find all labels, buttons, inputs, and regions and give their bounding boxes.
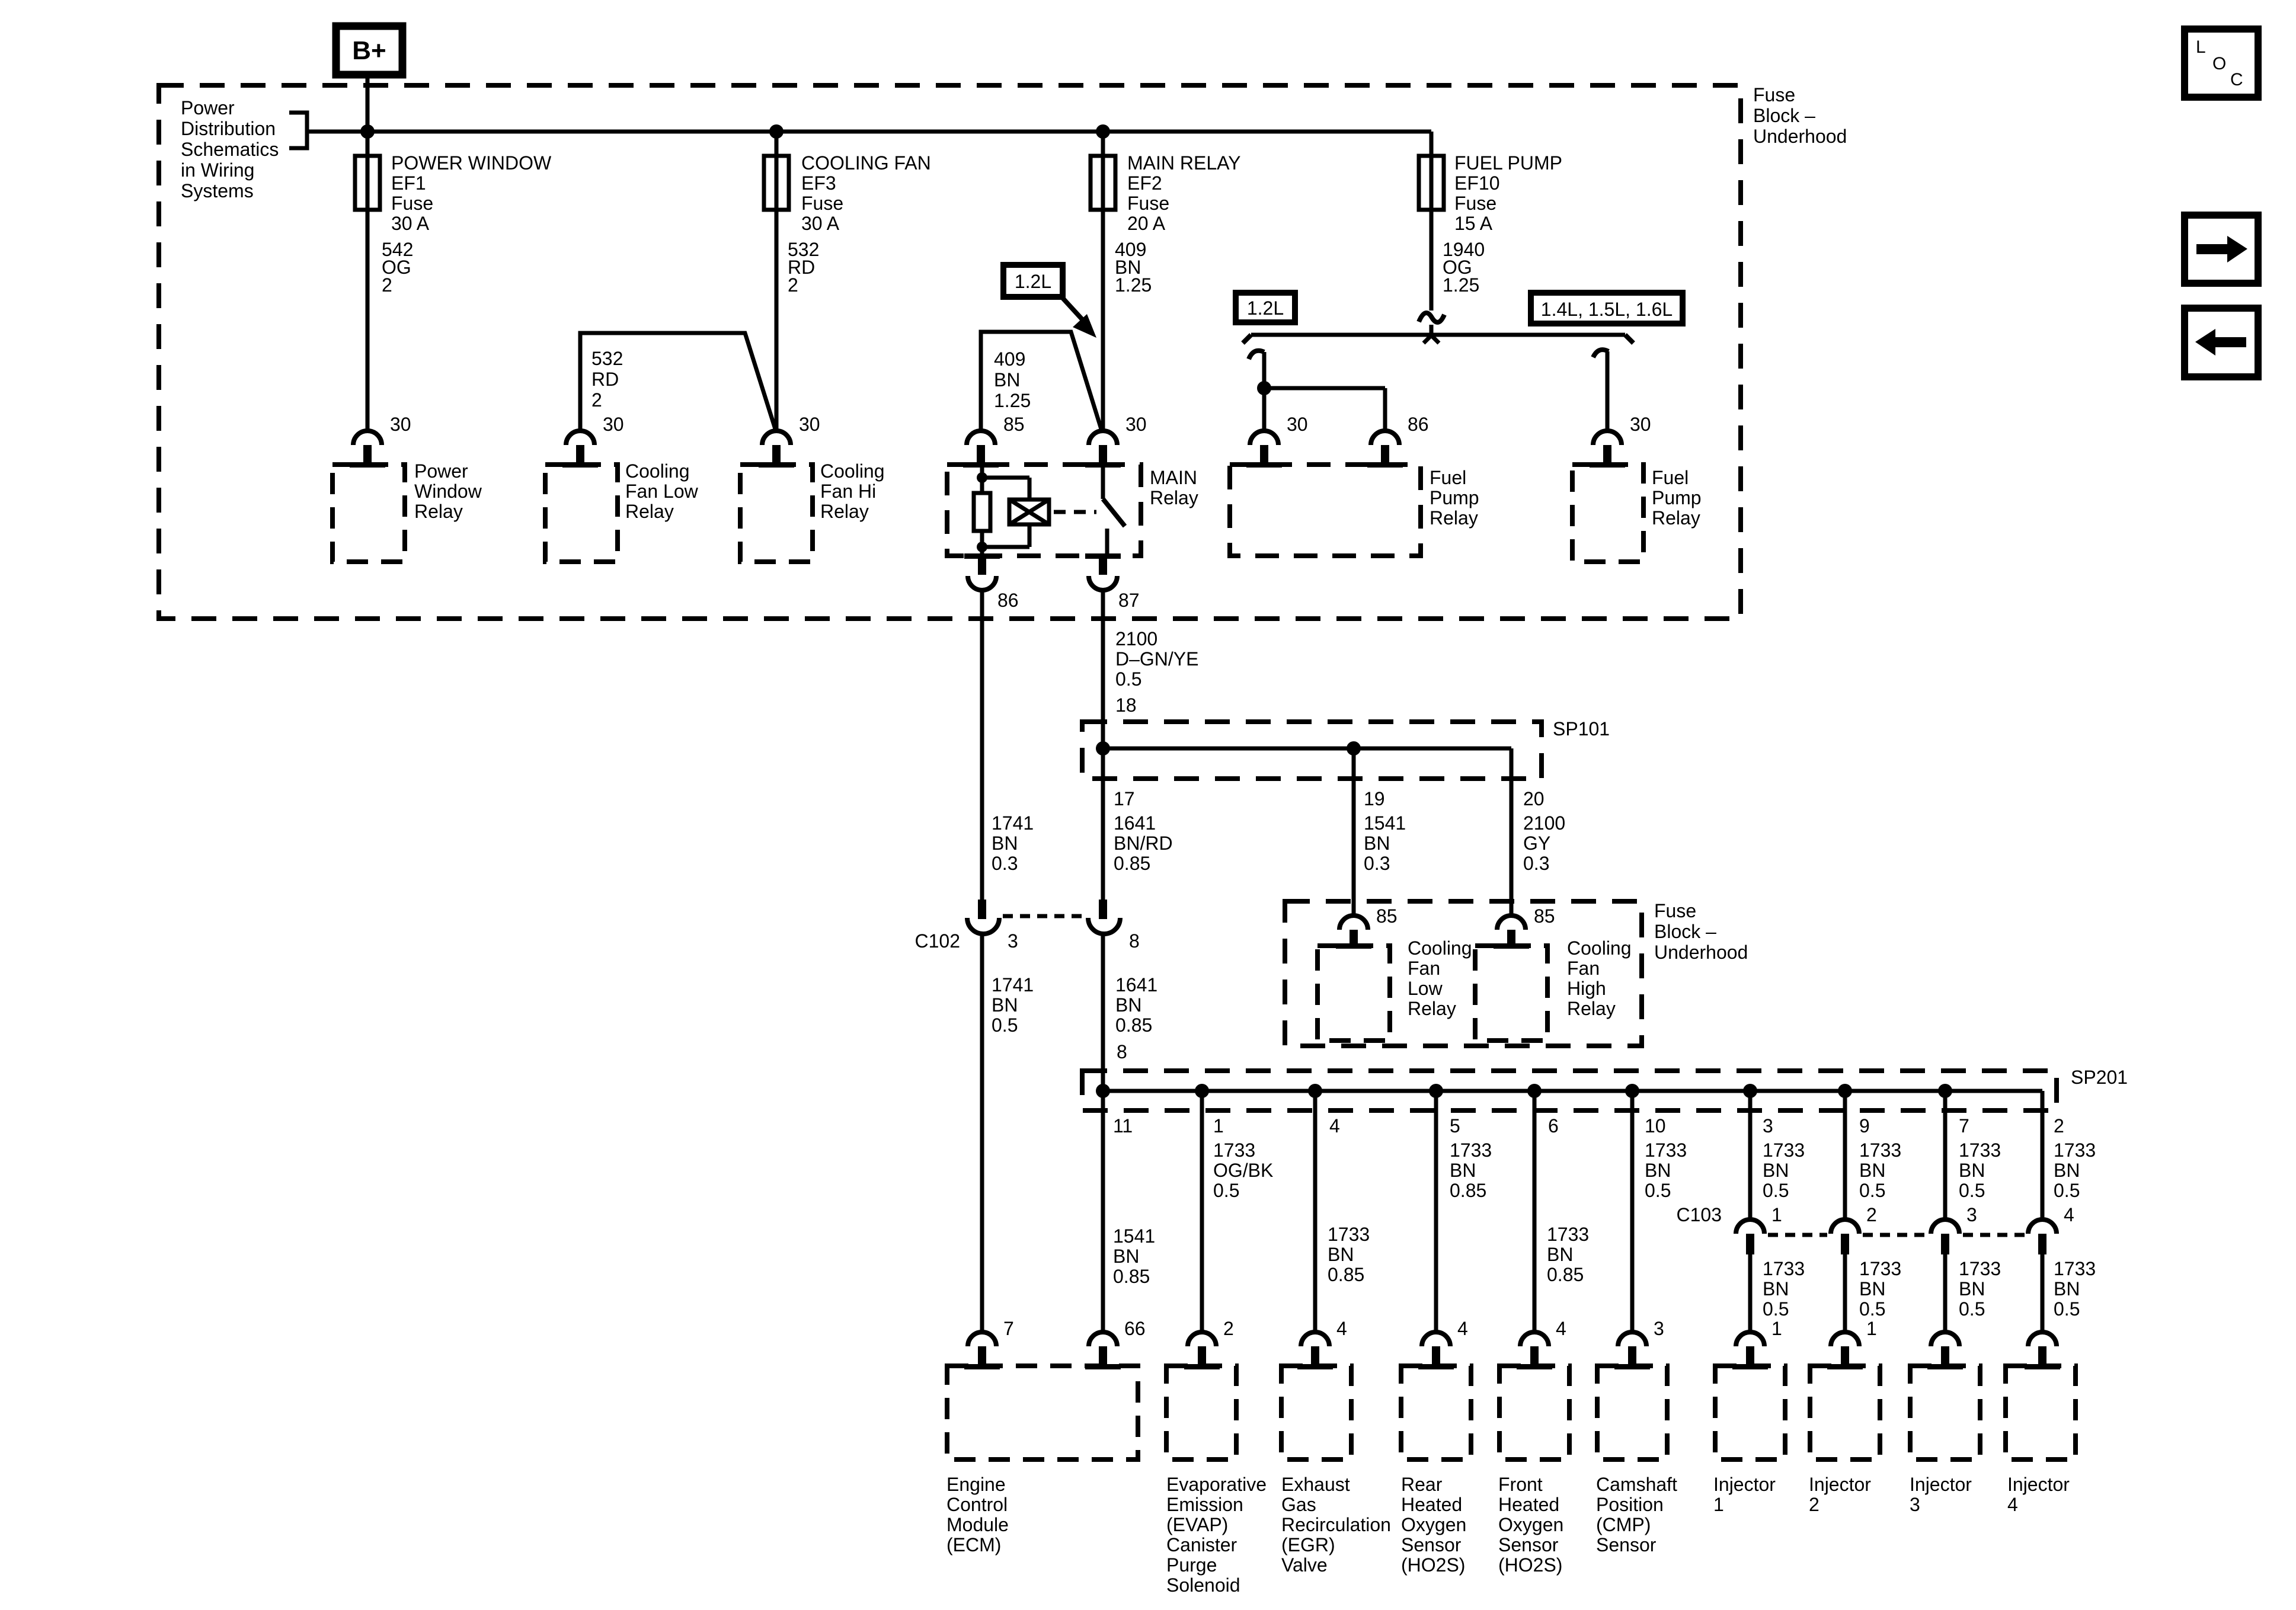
svg-text:Power: Power [414, 460, 468, 482]
wire 1741 BN from main relay pin 86 [980, 590, 984, 900]
injector 3 box [1910, 1366, 1980, 1459]
svg-text:Schematics: Schematics [181, 139, 279, 160]
svg-text:20 A: 20 A [1127, 213, 1166, 234]
wire 1.2L fuel pump relay branch [1262, 352, 1267, 431]
svg-text:0.5: 0.5 [1763, 1298, 1789, 1320]
svg-text:30: 30 [1287, 414, 1308, 435]
svg-text:C103: C103 [1677, 1204, 1722, 1225]
svg-text:(CMP): (CMP) [1596, 1514, 1651, 1535]
variant tag 1.2L (fuel pump) [1236, 293, 1295, 322]
svg-text:B+: B+ [352, 36, 386, 65]
junction node SP101 left [1096, 741, 1110, 756]
connector pin front HO2S pin 4 [1520, 1332, 1549, 1346]
svg-text:C: C [2230, 70, 2243, 89]
svg-text:1733: 1733 [1450, 1140, 1492, 1161]
svg-text:86: 86 [997, 590, 1019, 611]
connector C102 pin 8 [1099, 900, 1107, 919]
svg-text:0.5: 0.5 [1763, 1180, 1789, 1201]
svg-text:Heated: Heated [1401, 1494, 1462, 1515]
svg-text:BN: BN [2054, 1278, 2080, 1299]
junction in relay (bottom) [977, 542, 987, 552]
svg-text:BN: BN [1115, 994, 1141, 1016]
wire 10 to CMP sensor [1630, 1091, 1635, 1333]
svg-text:Injector: Injector [2007, 1474, 2070, 1495]
svg-text:3: 3 [1966, 1204, 1977, 1225]
previous page arrow box [2185, 308, 2258, 377]
svg-text:Injector: Injector [1809, 1474, 1871, 1495]
svg-text:Valve: Valve [1281, 1554, 1328, 1576]
svg-text:Heated: Heated [1498, 1494, 1559, 1515]
connector pin cooling fan hi relay pin 30 [762, 431, 791, 445]
connector pin rear HO2S pin 4 [1422, 1332, 1450, 1346]
wire to C103 (injector 3) [1943, 1091, 1948, 1219]
svg-text:Relay: Relay [1430, 507, 1478, 529]
connector C103 interface dashed line [1768, 1233, 1827, 1237]
connector C103 pin 4 [2028, 1219, 2057, 1234]
svg-text:1641: 1641 [1114, 812, 1156, 834]
svg-text:BN/RD: BN/RD [1114, 833, 1173, 854]
connector pin main relay pin 85 [967, 431, 995, 445]
svg-text:BN: BN [994, 369, 1020, 391]
svg-text:Exhaust: Exhaust [1281, 1474, 1350, 1495]
svg-text:Gas: Gas [1281, 1494, 1316, 1515]
svg-text:3: 3 [1763, 1115, 1773, 1137]
svg-text:1741: 1741 [992, 812, 1034, 834]
svg-text:0.3: 0.3 [1523, 853, 1549, 874]
svg-text:15 A: 15 A [1454, 213, 1493, 234]
junction node SP101 mid [1347, 741, 1361, 756]
svg-text:1733: 1733 [1328, 1224, 1370, 1245]
connector C103 pin 2 [1831, 1219, 1859, 1234]
main relay switch [1101, 465, 1105, 499]
variant tag 1.4L 1.5L 1.6L [1531, 293, 1683, 324]
svg-text:0.5: 0.5 [1959, 1298, 1985, 1320]
svg-text:Relay: Relay [820, 501, 869, 522]
svg-text:EF10: EF10 [1454, 172, 1499, 194]
wire 2 to C103 (injector 4) [2041, 1091, 2045, 1219]
svg-text:1641: 1641 [1115, 974, 1157, 996]
svg-text:Oxygen: Oxygen [1498, 1514, 1563, 1535]
wire 409 BN below EF2 [1101, 132, 1105, 431]
svg-text:Underhood: Underhood [1753, 126, 1847, 147]
relay actuation dashed link [1054, 510, 1096, 514]
svg-text:Sensor: Sensor [1596, 1534, 1657, 1555]
svg-text:Relay: Relay [625, 501, 674, 522]
svg-text:BN: BN [1959, 1160, 1985, 1181]
svg-text:0.3: 0.3 [992, 853, 1018, 874]
connector pin main relay pin 30 [1089, 431, 1117, 445]
svg-text:10: 10 [1645, 1115, 1666, 1137]
wire main feed bus [307, 130, 1431, 134]
EGR valve box [1281, 1366, 1351, 1459]
svg-text:Window: Window [414, 481, 482, 502]
svg-text:Fuel: Fuel [1652, 467, 1689, 488]
EVAP canister purge solenoid box [1166, 1366, 1236, 1459]
svg-text:85: 85 [1534, 905, 1555, 927]
svg-text:1: 1 [1213, 1115, 1224, 1137]
fuel pump relay box (1.2L) [1230, 465, 1421, 556]
svg-text:2: 2 [382, 274, 392, 296]
svg-text:1733: 1733 [1645, 1140, 1687, 1161]
fuse EF2 MAIN RELAY [1091, 156, 1115, 210]
fuel pump feed splice bar [1251, 333, 1625, 337]
svg-text:Recirculation: Recirculation [1281, 1514, 1391, 1535]
svg-text:86: 86 [1408, 414, 1429, 435]
svg-text:Systems: Systems [181, 180, 254, 201]
svg-text:1.25: 1.25 [1115, 274, 1152, 296]
svg-text:8: 8 [1129, 930, 1140, 952]
svg-text:BN: BN [1959, 1278, 1985, 1299]
svg-text:GY: GY [1523, 833, 1550, 854]
connector pin injector 2 pin 1 [1831, 1332, 1859, 1346]
wire 4 to EGR valve [1313, 1091, 1318, 1333]
connector C102 interface dashed line [1003, 914, 1085, 918]
svg-text:POWER WINDOW: POWER WINDOW [391, 152, 552, 174]
svg-text:1: 1 [1771, 1204, 1782, 1225]
battery feed B+ symbol [336, 26, 402, 75]
svg-text:Fuse: Fuse [1753, 84, 1795, 105]
svg-text:Control: Control [946, 1494, 1008, 1515]
svg-text:RD: RD [591, 369, 619, 390]
connector pin cooling fan low relay pin 30 [566, 431, 594, 445]
svg-text:Sensor: Sensor [1498, 1534, 1559, 1555]
cooling fan hi relay box [740, 465, 813, 562]
svg-text:532: 532 [591, 348, 623, 369]
junction node SP201 x=2028 [1195, 1084, 1209, 1098]
svg-text:BN: BN [1364, 833, 1390, 854]
svg-text:30: 30 [799, 414, 820, 435]
main relay coil lower wire [1028, 524, 1032, 547]
svg-text:0.85: 0.85 [1113, 1266, 1150, 1287]
wire 19 down from SP101 [1352, 748, 1356, 915]
svg-text:(HO2S): (HO2S) [1498, 1554, 1562, 1576]
svg-text:Purge: Purge [1166, 1554, 1217, 1576]
svg-text:409: 409 [994, 348, 1025, 370]
svg-text:18: 18 [1115, 694, 1137, 716]
junction in relay (top) [977, 472, 987, 483]
junction node SP201 x=1861 [1096, 1084, 1110, 1098]
wire 1641 BN 0.85 to SP201 [1101, 934, 1105, 1091]
svg-text:30: 30 [390, 414, 411, 435]
svg-text:Low: Low [1408, 978, 1443, 999]
svg-text:(ECM): (ECM) [946, 1534, 1001, 1555]
svg-text:Sensor: Sensor [1401, 1534, 1462, 1555]
svg-text:Emission: Emission [1166, 1494, 1243, 1515]
svg-text:BN: BN [1547, 1244, 1573, 1265]
svg-text:1733: 1733 [2054, 1258, 2096, 1279]
svg-text:4: 4 [1556, 1318, 1566, 1339]
svg-text:BN: BN [992, 994, 1018, 1016]
wire branch to cooling fan low relay [580, 333, 776, 431]
svg-text:(EGR): (EGR) [1281, 1534, 1335, 1555]
injector feed wire below C103 [2041, 1254, 2045, 1333]
svg-text:Relay: Relay [1652, 507, 1700, 529]
svg-text:0.5: 0.5 [1115, 668, 1141, 690]
junction node fuel pump relay [1257, 381, 1271, 395]
svg-text:3: 3 [1910, 1494, 1920, 1515]
splice SP101 box (dashed) [1082, 722, 1542, 779]
svg-text:7: 7 [1003, 1318, 1014, 1339]
svg-text:30: 30 [603, 414, 624, 435]
next page arrow box [2185, 215, 2258, 283]
svg-text:Relay: Relay [1567, 998, 1616, 1019]
svg-text:Pump: Pump [1430, 487, 1479, 508]
wire 2100 D-GN/YE from main relay pin 87 [1101, 590, 1105, 900]
svg-text:19: 19 [1364, 788, 1385, 809]
svg-text:0.85: 0.85 [1328, 1264, 1364, 1285]
svg-text:4: 4 [1336, 1318, 1347, 1339]
svg-text:Engine: Engine [946, 1474, 1006, 1495]
svg-text:Front: Front [1498, 1474, 1543, 1495]
svg-text:Oxygen: Oxygen [1401, 1514, 1466, 1535]
svg-text:4: 4 [1457, 1318, 1468, 1339]
fuse EF3 COOLING FAN [764, 156, 789, 210]
svg-text:0.85: 0.85 [1115, 1014, 1152, 1036]
svg-text:Underhood: Underhood [1654, 942, 1748, 963]
svg-text:Fuse: Fuse [1454, 193, 1496, 214]
svg-text:Cooling: Cooling [625, 460, 690, 482]
svg-text:EF2: EF2 [1127, 172, 1162, 194]
svg-text:FUEL PUMP: FUEL PUMP [1454, 152, 1562, 174]
injector feed wire below C103 [1748, 1254, 1753, 1333]
svg-text:9: 9 [1859, 1115, 1870, 1137]
wire 1 to EVAP solenoid [1200, 1091, 1204, 1333]
svg-text:3: 3 [1654, 1318, 1664, 1339]
svg-text:20: 20 [1523, 788, 1544, 809]
wire 1741 BN 0.5 to ECM pin 7 [980, 934, 984, 1333]
svg-text:1733: 1733 [1859, 1258, 1901, 1279]
junction node SP201 x=3282 [1938, 1084, 1952, 1098]
connector pin fuel pump relay pin 86 [1371, 431, 1399, 445]
svg-text:0.85: 0.85 [1450, 1180, 1486, 1201]
svg-text:1: 1 [1771, 1318, 1782, 1339]
main relay pin 86 (bottom) [964, 553, 1000, 559]
svg-text:1.2L: 1.2L [1015, 271, 1051, 292]
svg-text:Fuse: Fuse [1127, 193, 1169, 214]
connector pin EGR pin 4 [1301, 1332, 1329, 1346]
injector feed wire below C103 [1843, 1254, 1847, 1333]
svg-text:4: 4 [2064, 1204, 2074, 1225]
svg-text:Fan: Fan [1408, 958, 1440, 979]
svg-text:2: 2 [1866, 1204, 1877, 1225]
svg-text:(EVAP): (EVAP) [1166, 1514, 1228, 1535]
wire to C103 (injector 1) [1748, 1091, 1753, 1219]
svg-text:1733: 1733 [1763, 1258, 1805, 1279]
svg-text:1733: 1733 [2054, 1140, 2096, 1161]
junction node SP201 x=2589 [1527, 1084, 1542, 1098]
connector C103 pin 3 [1931, 1219, 1959, 1234]
cooling fan low relay box [545, 465, 618, 562]
svg-text:Distribution: Distribution [181, 118, 276, 139]
svg-text:BN: BN [1328, 1244, 1354, 1265]
svg-text:2: 2 [1223, 1318, 1234, 1339]
cooling fan high relay box 2 [1475, 946, 1547, 1041]
wire 1.4-1.6L fuel pump relay branch [1606, 351, 1610, 431]
svg-text:Rear: Rear [1401, 1474, 1443, 1495]
svg-text:Fan Hi: Fan Hi [820, 481, 876, 502]
svg-text:Relay: Relay [1408, 998, 1456, 1019]
svg-text:1541: 1541 [1113, 1225, 1155, 1247]
connector pin power window relay pin 30 [353, 431, 382, 445]
wire 5 to rear HO2S [1434, 1091, 1438, 1333]
rear heated oxygen sensor box [1401, 1366, 1471, 1459]
junction node SP201 x=3113 [1838, 1084, 1852, 1098]
svg-text:Block –: Block – [1654, 921, 1716, 942]
svg-text:0.5: 0.5 [992, 1014, 1018, 1036]
main relay coil circuit wire [980, 465, 984, 493]
svg-text:1.25: 1.25 [994, 390, 1031, 411]
svg-text:Injector: Injector [1910, 1474, 1972, 1495]
svg-text:Fuse: Fuse [1654, 900, 1696, 921]
svg-text:11: 11 [1113, 1115, 1133, 1137]
svg-text:1733: 1733 [1959, 1140, 2001, 1161]
svg-text:Solenoid: Solenoid [1166, 1574, 1240, 1596]
junction node SP201 x=2423 [1429, 1084, 1443, 1098]
connector pin injector 4 pin [2028, 1332, 2057, 1346]
svg-text:BN: BN [1859, 1278, 1885, 1299]
fuse EF10 FUEL PUMP [1419, 156, 1444, 210]
svg-text:4: 4 [2007, 1494, 2018, 1515]
cooling fan low relay box 2 [1318, 946, 1390, 1041]
svg-text:(HO2S): (HO2S) [1401, 1554, 1465, 1576]
svg-text:MAIN: MAIN [1150, 467, 1197, 488]
splice SP201 box (dashed) [1082, 1071, 2057, 1110]
connector pin fuel pump relay 2 pin 30 [1593, 431, 1622, 445]
junction node SP201 x=2953 [1743, 1084, 1757, 1098]
svg-text:2100: 2100 [1523, 812, 1565, 834]
fuse block underhood box 2 (dashed) [1285, 901, 1642, 1046]
wire to C103 (injector 2) [1843, 1091, 1847, 1219]
junction node at EF2 [1096, 124, 1110, 139]
svg-text:D–GN/YE: D–GN/YE [1115, 648, 1198, 670]
wire 532 RD below EF3 [775, 132, 779, 431]
svg-text:5: 5 [1450, 1115, 1460, 1137]
svg-text:30 A: 30 A [391, 213, 430, 234]
svg-text:3: 3 [1008, 930, 1018, 952]
connector pin ECM pin 7 [968, 1332, 996, 1346]
svg-text:SP201: SP201 [2071, 1067, 2128, 1088]
svg-text:Block –: Block – [1753, 105, 1815, 126]
svg-text:Camshaft: Camshaft [1596, 1474, 1677, 1495]
svg-text:EF3: EF3 [801, 172, 836, 194]
svg-text:2: 2 [788, 274, 798, 296]
svg-text:BN: BN [1450, 1160, 1476, 1181]
fuel pump relay box (1.4-1.6L) [1572, 465, 1643, 562]
svg-text:Fuse: Fuse [801, 193, 843, 214]
svg-text:8: 8 [1117, 1041, 1127, 1062]
connector C102 pin 3 [978, 900, 986, 919]
svg-text:BN: BN [1763, 1278, 1789, 1299]
svg-text:Power: Power [181, 97, 235, 119]
svg-text:2: 2 [1809, 1494, 1819, 1515]
svg-text:66: 66 [1124, 1318, 1146, 1339]
svg-text:0.5: 0.5 [2054, 1298, 2080, 1320]
svg-text:1733: 1733 [1859, 1140, 1901, 1161]
connector C103 pin 1 [1736, 1219, 1764, 1234]
svg-text:Relay: Relay [1150, 487, 1198, 508]
injector 2 box [1810, 1366, 1880, 1459]
svg-text:1741: 1741 [992, 974, 1034, 996]
connector pin injector 3 pin [1931, 1332, 1959, 1346]
svg-text:SP101: SP101 [1553, 718, 1610, 740]
svg-text:Fan Low: Fan Low [625, 481, 699, 502]
svg-text:O: O [2212, 54, 2226, 73]
variant tag 1.2L with arrow [1003, 265, 1063, 297]
svg-text:30: 30 [1125, 414, 1147, 435]
main relay coil (solenoid) symbol [1009, 500, 1049, 524]
main relay pin 87 (bottom) [1085, 553, 1121, 559]
svg-text:High: High [1567, 978, 1606, 999]
svg-text:EF1: EF1 [391, 172, 426, 194]
front heated oxygen sensor box [1499, 1366, 1569, 1459]
LOC reference box [2185, 29, 2258, 97]
svg-text:7: 7 [1959, 1115, 1969, 1137]
svg-text:17: 17 [1114, 788, 1135, 809]
svg-text:OG/BK: OG/BK [1213, 1160, 1273, 1181]
main relay box [947, 465, 1141, 556]
junction node SP201 x=2754 [1625, 1084, 1639, 1098]
svg-text:0.5: 0.5 [1859, 1298, 1885, 1320]
wire 20 down from SP101 [1510, 748, 1514, 915]
cooling fan low relay pin 85 [1339, 916, 1368, 930]
svg-text:BN: BN [1113, 1246, 1139, 1267]
svg-text:85: 85 [1376, 905, 1398, 927]
svg-text:0.85: 0.85 [1114, 853, 1150, 874]
svg-text:2: 2 [591, 389, 602, 411]
svg-text:0.85: 0.85 [1547, 1264, 1584, 1285]
wire 6 to front HO2S [1533, 1091, 1537, 1333]
svg-text:0.3: 0.3 [1364, 853, 1390, 874]
svg-text:C102: C102 [915, 930, 961, 952]
svg-text:1733: 1733 [1959, 1258, 2001, 1279]
connector pin fuel pump relay pin 30 [1250, 431, 1278, 445]
wire hook to 1.2L fuel pump relay branch [1249, 351, 1264, 359]
wire break squiggle on 1940 wire [1419, 313, 1444, 322]
svg-text:1733: 1733 [1547, 1224, 1589, 1245]
connector pin EVAP pin 2 [1188, 1332, 1216, 1346]
svg-text:BN: BN [1645, 1160, 1671, 1181]
svg-text:Fan: Fan [1567, 958, 1600, 979]
svg-text:1: 1 [1713, 1494, 1724, 1515]
svg-text:Pump: Pump [1652, 487, 1702, 508]
svg-text:Canister: Canister [1166, 1534, 1237, 1555]
fuse EF1 POWER WINDOW [355, 156, 380, 210]
svg-text:1733: 1733 [1213, 1140, 1255, 1161]
wire B+ vertical [366, 75, 370, 431]
svg-text:in Wiring: in Wiring [181, 159, 254, 181]
svg-text:Injector: Injector [1713, 1474, 1776, 1495]
main relay resistor [974, 493, 990, 531]
svg-text:2: 2 [2054, 1115, 2064, 1137]
svg-text:4: 4 [1329, 1115, 1340, 1137]
injector 1 box [1715, 1366, 1785, 1459]
splice SP101 bus wire [1103, 747, 1511, 751]
svg-text:Module: Module [946, 1514, 1009, 1535]
connector pin injector 1 pin 1 [1736, 1332, 1764, 1346]
svg-text:1.25: 1.25 [1443, 274, 1479, 296]
wire feed to EF10 [1430, 132, 1434, 311]
svg-text:0.5: 0.5 [1645, 1180, 1671, 1201]
junction node at EF3 [769, 124, 784, 139]
fuse block underhood box 1 (dashed) [159, 85, 1741, 619]
svg-text:BN: BN [2054, 1160, 2080, 1181]
svg-text:Cooling: Cooling [1567, 937, 1632, 959]
injector 4 box [2006, 1366, 2076, 1459]
svg-text:0.5: 0.5 [2054, 1180, 2080, 1201]
svg-text:1: 1 [1866, 1318, 1877, 1339]
svg-text:Fuel: Fuel [1430, 467, 1466, 488]
svg-text:85: 85 [1003, 414, 1025, 435]
